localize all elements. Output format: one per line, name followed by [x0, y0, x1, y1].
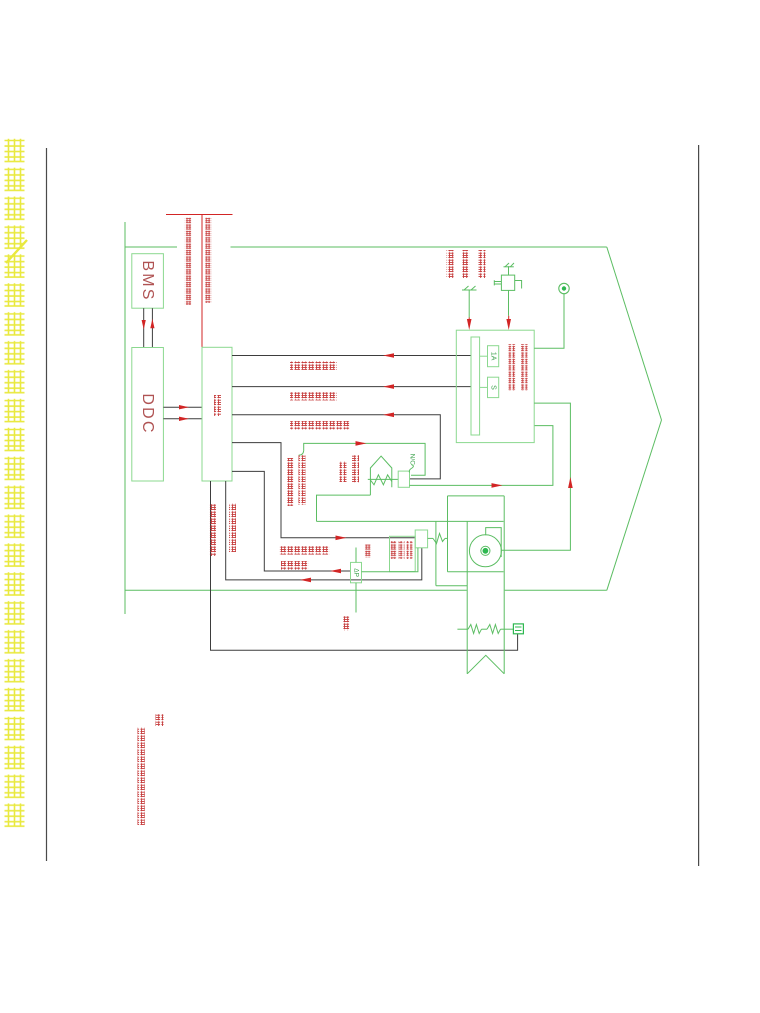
pressure switch E-box symbol [501, 275, 514, 290]
fan compartment divider / duct left wall [466, 521, 468, 673]
wire: bypass valve control [232, 443, 415, 538]
arrow into control box (alarm input) [468, 318, 470, 324]
duct break chevron [467, 655, 504, 674]
fire alarm input sensor symbol [462, 289, 477, 291]
breaker 1A box [488, 346, 499, 367]
fire damper pentagon body [370, 456, 391, 495]
arrow on motor fault alarm wire [383, 353, 394, 358]
contactor S box [488, 377, 499, 397]
E-box stem down [508, 290, 510, 315]
zone outline upper diagonal [607, 247, 662, 420]
svg-text:N/C: N/C [408, 454, 415, 466]
slash glyph in yellow title [6, 240, 27, 263]
drawing title (yellow, vertical): 消防楼梯/消防电梯合用前室加压送风控制系统原理图 [3, 138, 29, 832]
fan motor [481, 546, 490, 555]
wire from damper to fan casing (green) [317, 495, 371, 521]
wire: fire damper switch status 电动防火阀开关状态 [232, 415, 440, 479]
wire: damper status to control box (green) [410, 426, 553, 486]
label 电动 (column) [340, 461, 347, 482]
differential pressure sensor ΔP box [351, 562, 362, 582]
note: 以下由消防控制系统供货及安装 (left column) [185, 217, 191, 305]
label 启动风机 (column) [447, 250, 454, 278]
label 压差旁通阀状态 [279, 546, 330, 555]
wire: motor fault alarm 电动机故障警报 [232, 355, 471, 357]
air outlet damper actuator box [513, 624, 523, 634]
busbar [471, 337, 480, 435]
label 压差读数 [281, 561, 309, 570]
connector busbar-1A [480, 355, 488, 357]
fan enclosure left edge [435, 521, 437, 585]
svg-text:S: S [490, 385, 497, 390]
zone outline left edge [124, 222, 126, 614]
arrow on pressure reading wire [300, 578, 311, 583]
fire damper fusible spring (zigzag) [370, 475, 391, 485]
arrow on bypass valve status wire [330, 569, 341, 574]
duct right wall [503, 496, 505, 674]
bypass valve body box [390, 536, 416, 571]
note: 以上由楼宇自控系统供货及安装 (right column) [205, 217, 211, 303]
control box 加压风机控制箱 [456, 330, 534, 442]
label 电动防火阀开关状态 [290, 421, 350, 429]
label 接线盒 (vertical) [214, 395, 221, 416]
label 电动机开关状态 [290, 392, 337, 400]
wire: air outlet damper control [211, 481, 518, 650]
label 电动机故障警报 [290, 362, 337, 370]
air outlet damper blade line [457, 628, 468, 630]
E-box left comb glyph [493, 280, 495, 285]
label 室内 [365, 545, 372, 558]
wire DDC-junction box (upper) [163, 406, 202, 408]
note text 消防楼梯之加压系统不设电动防火阀 (vertical) [138, 727, 145, 825]
wire: motor on/off status 电动机开关状态 [232, 386, 471, 388]
zone outline bottom edge [125, 589, 467, 591]
wire DDC-junction box (lower) [163, 418, 202, 420]
label 室外 [343, 616, 350, 631]
arrow down on BMS-DDC left wire [142, 320, 146, 330]
fan enclosure bottom edge [436, 585, 467, 587]
arrow on damper-status green wire [492, 483, 503, 488]
zone outline lower diagonal [607, 420, 662, 590]
wire: fire-control-centre linkage signal (green) [304, 443, 425, 475]
zone outline (big arrow) top edge [125, 246, 177, 248]
svg-text:ΔP: ΔP [353, 568, 360, 577]
fan casing top line [448, 495, 505, 497]
connector busbar-S [480, 386, 488, 388]
note header 注: [156, 714, 164, 726]
arrow into control box (E-box) [508, 316, 510, 322]
red demarcation line (horizontal) [166, 214, 233, 216]
label 加压风机控制箱 (column) [521, 344, 528, 391]
wire BMS-DDC (left) [143, 308, 145, 347]
dP indoor tube [355, 548, 357, 563]
right page border line [698, 145, 700, 866]
fire damper actuator box N/C [398, 471, 409, 487]
wire: pressure reading 压差读数 [226, 481, 422, 580]
left page border line [46, 148, 48, 861]
arrow on fire damper status wire [383, 413, 394, 418]
fan unit top line [317, 520, 504, 522]
wire lamp to control box [534, 294, 564, 349]
BMS box [132, 254, 164, 309]
fire damper blade line [368, 478, 398, 480]
bypass valve actuator box [415, 530, 427, 548]
air outlet damper zigzags [468, 625, 482, 634]
label 联动信号 (column) [287, 458, 294, 506]
label 电动阀开关状态 (vertical) [209, 504, 216, 556]
svg-text:DDC: DDC [139, 393, 156, 434]
flexible connector actuator-fan (zigzag) [428, 537, 433, 539]
svg-text:BMS: BMS [139, 260, 156, 301]
hook at linkage wire start [299, 451, 304, 455]
fan unit bottom line [448, 571, 504, 573]
svg-text:1A: 1A [490, 352, 497, 361]
junction box 接线盒 [202, 347, 232, 481]
red demarcation line (vertical) [201, 215, 203, 348]
label 消防设备配电箱 (column) [509, 344, 516, 391]
label 信号输入 (column) [463, 250, 470, 278]
arrow on DDC-junction upper wire [179, 405, 189, 409]
arrow up on BMS-DDC right wire [150, 319, 154, 329]
wire: bypass valve status 压差旁通阀状态 [232, 471, 351, 571]
fan volute [486, 528, 502, 557]
E-box right bracket [515, 281, 522, 289]
fan impeller circle [469, 535, 501, 567]
dP outdoor tube [355, 583, 357, 613]
label 压差旁通阀控制 (vertical) [229, 503, 236, 552]
wire: control box to fan motor (green) [501, 403, 570, 550]
indicator lamp [559, 283, 569, 293]
curl into damper actuator [409, 465, 413, 473]
label 消防控制中心 (column) [299, 455, 306, 505]
arrow on motor status wire [383, 384, 394, 389]
fan motor-compartment left wall [447, 496, 449, 572]
DDC box [132, 348, 164, 482]
arrow on DDC-junction lower wire [179, 417, 189, 421]
wire dP to bypass actuator (green) [362, 548, 418, 572]
label 消防报警 (column) [479, 250, 486, 278]
arrow up on fan motor wire [568, 477, 573, 488]
label 全启全闭旁通阀 (3 columns) [391, 541, 397, 559]
arrow on linkage signal wire [356, 441, 367, 446]
wire BMS-DDC (right) [151, 308, 153, 347]
label 防火阀 (column) [352, 455, 359, 483]
arrow on bypass valve control wire [336, 536, 347, 541]
